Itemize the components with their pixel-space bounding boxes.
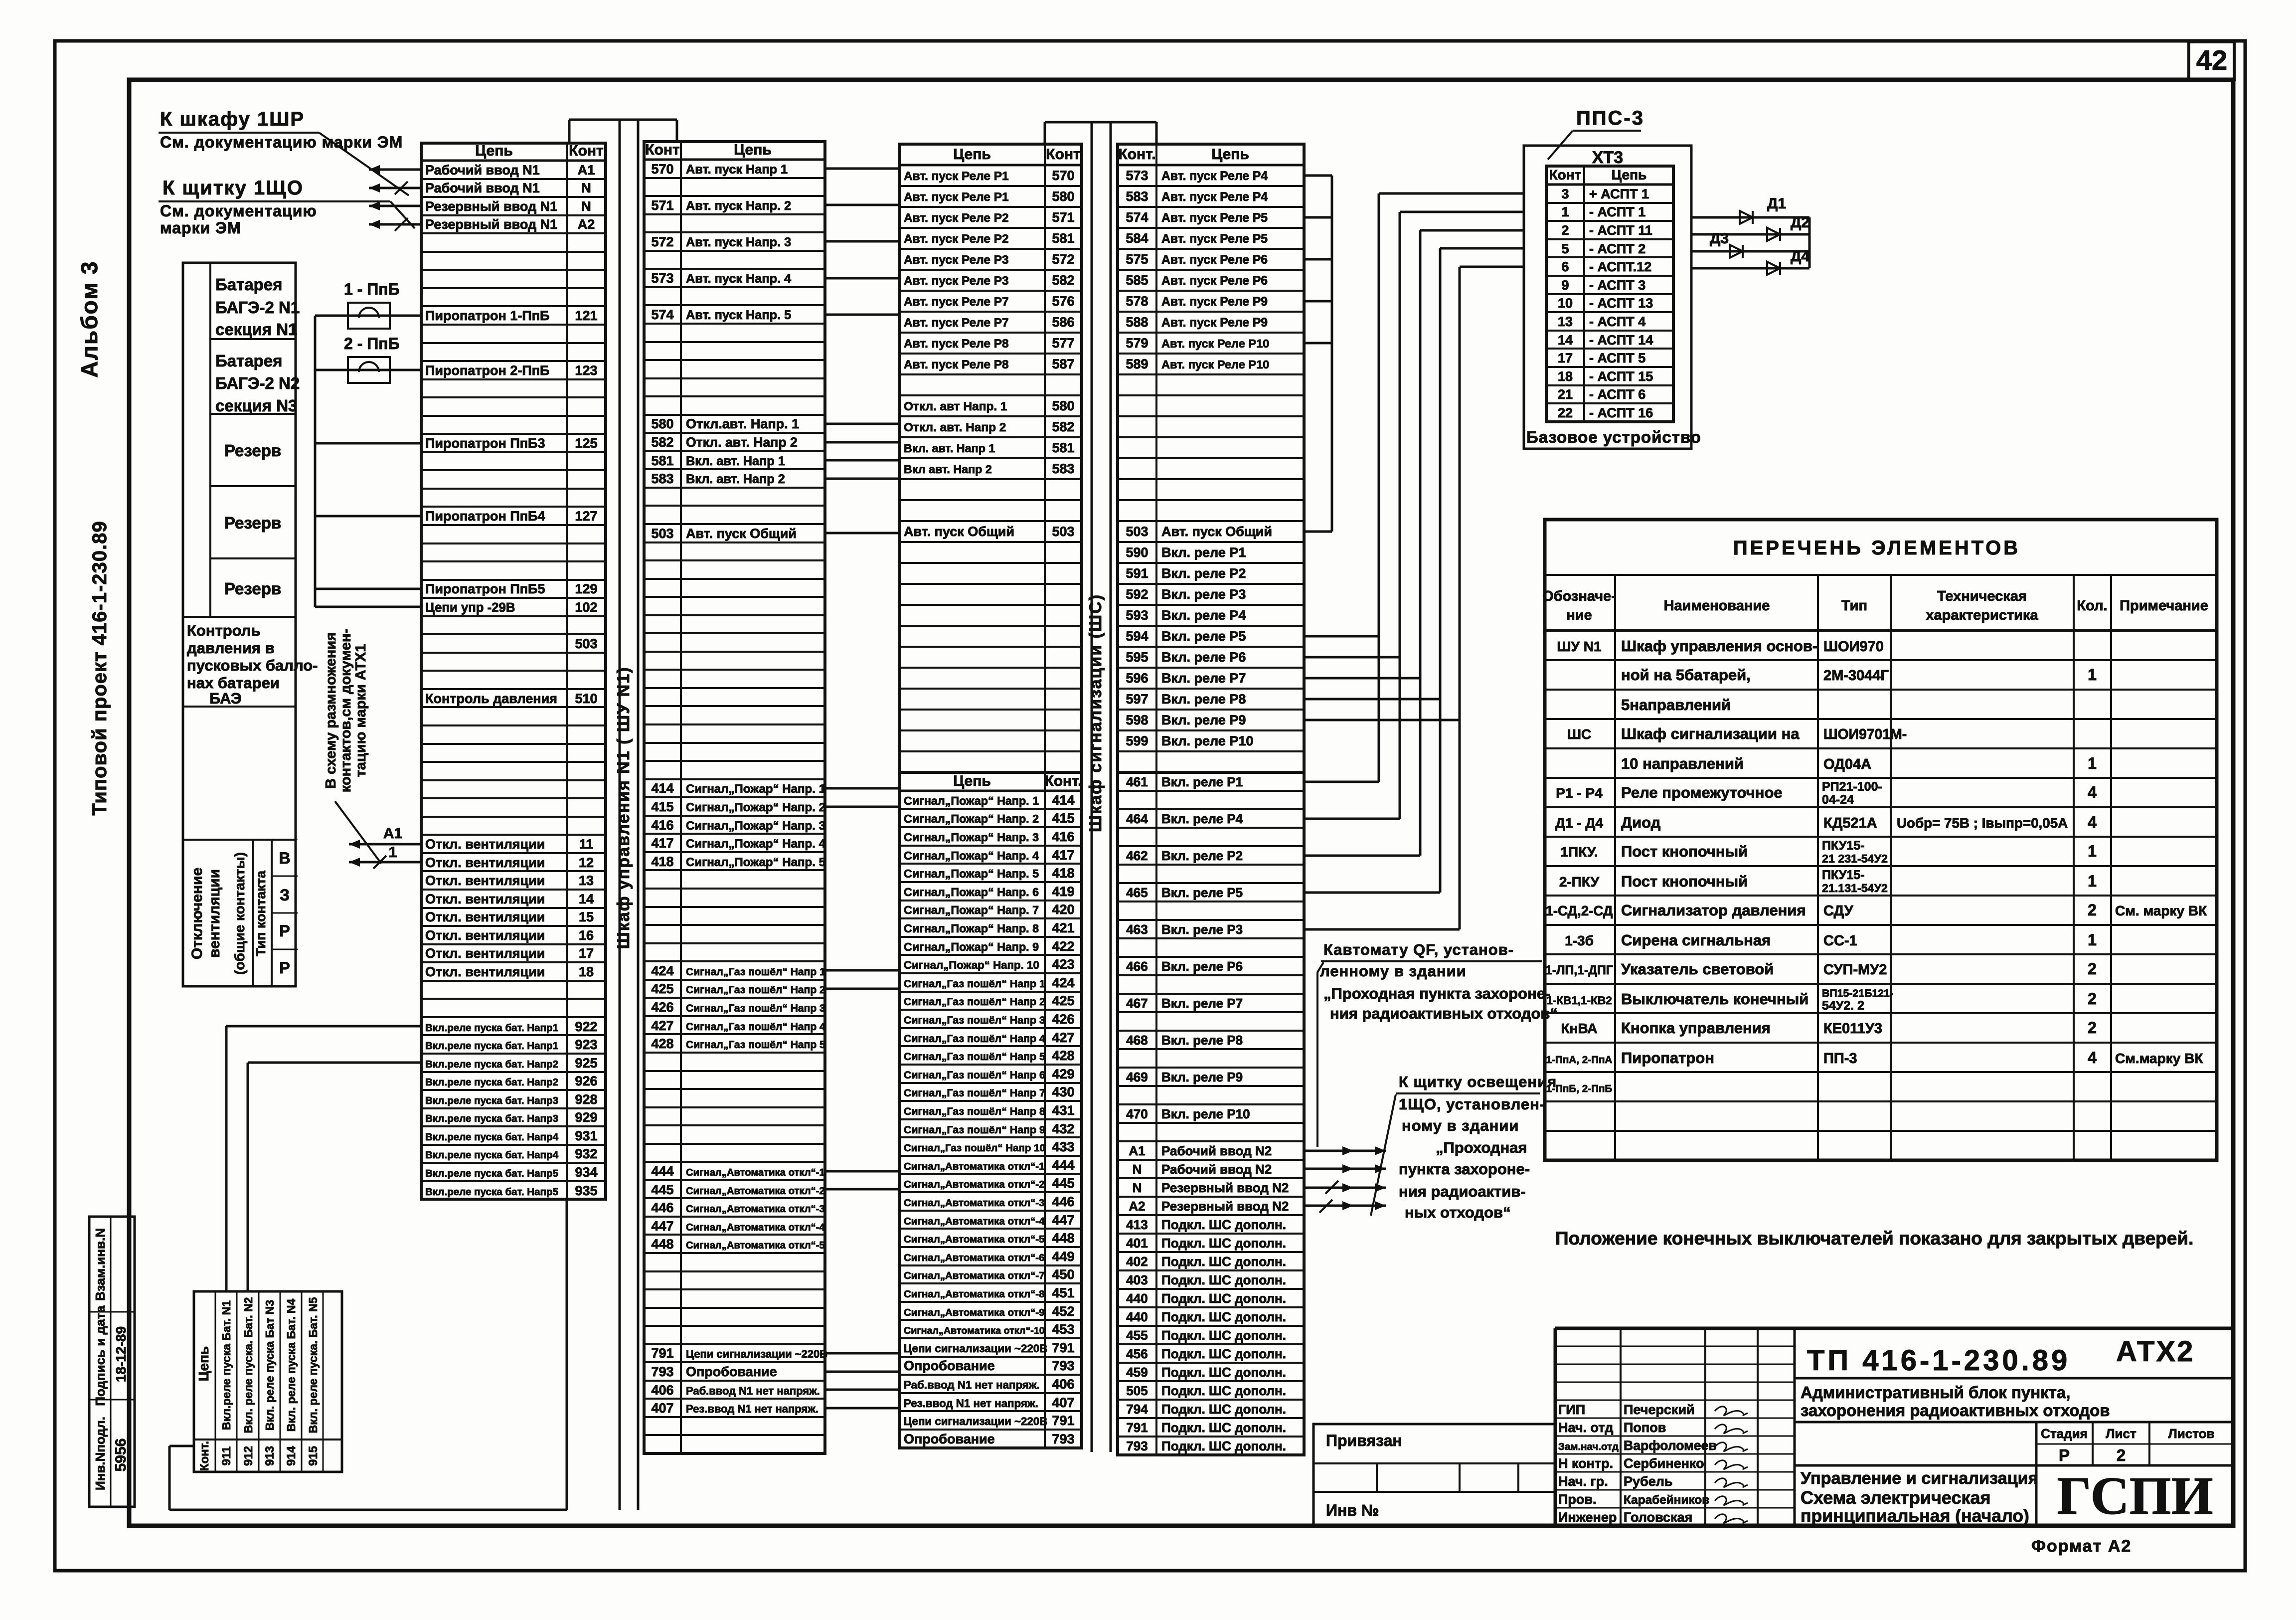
svg-text:576: 576 [1052, 294, 1074, 309]
svg-text:Авт. пуск Общий: Авт. пуск Общий [686, 526, 797, 541]
svg-text:578: 578 [1126, 294, 1148, 309]
svg-text:586: 586 [1052, 315, 1074, 330]
svg-text:589: 589 [1126, 357, 1148, 371]
svg-text:Авт. пуск Реле Р2: Авт. пуск Реле Р2 [904, 211, 1009, 225]
svg-text:КнВА: КнВА [1561, 1021, 1597, 1036]
svg-text:Нач. отд: Нач. отд [1558, 1420, 1613, 1435]
svg-text:2М-3044Г: 2М-3044Г [1823, 668, 1889, 684]
svg-text:Авт. пуск Реле Р2: Авт. пуск Реле Р2 [904, 232, 1009, 246]
svg-text:2 - ПпБ: 2 - ПпБ [344, 335, 400, 353]
svg-text:6: 6 [1561, 259, 1569, 274]
svg-text:Авт. пуск Реле Р6: Авт. пуск Реле Р6 [1161, 253, 1268, 267]
svg-text:Р1 - Р4: Р1 - Р4 [1556, 785, 1603, 801]
svg-text:21.131-54У2: 21.131-54У2 [1822, 882, 1888, 895]
svg-text:Сигнал„Автоматика откл“-10: Сигнал„Автоматика откл“-10 [904, 1325, 1045, 1336]
svg-text:А1: А1 [383, 825, 402, 842]
svg-text:Авт. пуск Напр. 4: Авт. пуск Напр. 4 [686, 272, 791, 286]
svg-text:К щитку освещения: К щитку освещения [1399, 1073, 1557, 1090]
svg-text:503: 503 [1052, 524, 1074, 539]
svg-text:463: 463 [1126, 922, 1148, 937]
svg-text:См.марку ВК: См.марку ВК [2115, 1051, 2203, 1066]
svg-text:Откл. вентиляции: Откл. вентиляции [425, 909, 545, 924]
svg-text:1: 1 [2088, 931, 2097, 949]
svg-text:ПЕРЕЧЕНЬ ЭЛЕМЕНТОВ: ПЕРЕЧЕНЬ ЭЛЕМЕНТОВ [1733, 537, 2020, 559]
svg-text:Откл. вентиляции: Откл. вентиляции [425, 855, 545, 870]
svg-text:465: 465 [1126, 885, 1148, 900]
svg-text:Вкл.реле пуска бат. Напр2: Вкл.реле пуска бат. Напр2 [425, 1059, 558, 1070]
svg-text:ПКУ15-: ПКУ15- [1822, 839, 1865, 853]
svg-text:Инв №: Инв № [1326, 1501, 1379, 1519]
svg-text:Вкл. реле пуска. Бат. N5: Вкл. реле пуска. Бат. N5 [307, 1297, 320, 1433]
svg-text:581: 581 [1052, 440, 1074, 455]
svg-text:Цепи сигнализации ~220В: Цепи сигнализации ~220В [904, 1415, 1047, 1428]
svg-text:Подкл. ШС дополн.: Подкл. ШС дополн. [1161, 1439, 1286, 1453]
svg-text:Uобр= 75В ; Iвыпр=0,05А: Uобр= 75В ; Iвыпр=0,05А [1897, 815, 2068, 831]
svg-text:пусковых балло-: пусковых балло- [187, 657, 318, 674]
svg-text:Сигнал„Автоматика откл“-2: Сигнал„Автоматика откл“-2 [904, 1179, 1045, 1190]
svg-text:ШОИ9701М-: ШОИ9701М- [1823, 726, 1907, 742]
svg-text:4: 4 [2088, 783, 2097, 801]
svg-text:505: 505 [1126, 1383, 1148, 1398]
svg-text:418: 418 [1052, 866, 1074, 881]
svg-text:Раб.ввод N1 нет напряж.: Раб.ввод N1 нет напряж. [904, 1379, 1040, 1391]
svg-text:923: 923 [575, 1037, 597, 1052]
svg-text:Авт. пуск Реле Р4: Авт. пуск Реле Р4 [1161, 190, 1268, 204]
svg-text:Типовой проект 416-1-230.89: Типовой проект 416-1-230.89 [89, 521, 111, 815]
svg-text:415: 415 [651, 799, 673, 814]
svg-text:N: N [1133, 1180, 1142, 1195]
svg-text:428: 428 [1052, 1048, 1074, 1063]
svg-text:54У2. 2: 54У2. 2 [1822, 999, 1864, 1013]
svg-text:446: 446 [651, 1200, 673, 1215]
svg-text:570: 570 [651, 162, 673, 177]
svg-text:125: 125 [575, 436, 597, 451]
svg-text:Схема электрическая: Схема электрическая [1801, 1487, 1991, 1508]
svg-text:416: 416 [1052, 829, 1074, 844]
svg-text:447: 447 [1052, 1213, 1074, 1228]
svg-text:462: 462 [1126, 848, 1148, 863]
svg-text:5направлений: 5направлений [1621, 696, 1731, 714]
svg-text:Рабочий ввод N1: Рабочий ввод N1 [425, 180, 540, 195]
svg-text:Цепь: Цепь [953, 146, 991, 163]
svg-text:407: 407 [1052, 1395, 1074, 1410]
svg-text:Конт: Конт [1046, 146, 1080, 163]
svg-text:1: 1 [2088, 754, 2097, 772]
svg-text:12: 12 [579, 855, 594, 870]
svg-text:Конт: Конт [645, 142, 679, 158]
svg-text:423: 423 [1052, 957, 1074, 972]
svg-text:581: 581 [651, 453, 673, 468]
svg-text:Вкл.реле пуска бат. Напр5: Вкл.реле пуска бат. Напр5 [425, 1168, 558, 1179]
svg-text:Сигнал„Автоматика откл“-3: Сигнал„Автоматика откл“-3 [686, 1204, 825, 1215]
svg-text:Рубель: Рубель [1624, 1474, 1672, 1489]
svg-text:Подкл. ШС дополн.: Подкл. ШС дополн. [1161, 1236, 1286, 1251]
svg-text:459: 459 [1126, 1365, 1148, 1380]
svg-text:1ПКУ.: 1ПКУ. [1560, 844, 1598, 860]
svg-text:Вкл. реле пуска. Бат. N2: Вкл. реле пуска. Бат. N2 [242, 1297, 255, 1434]
svg-text:N: N [1133, 1162, 1142, 1177]
svg-text:Базовое устройство: Базовое устройство [1526, 428, 1701, 446]
svg-text:Положение конечных выключате: Положение конечных выключателей показано… [1555, 1228, 2193, 1249]
svg-text:Инженер: Инженер [1558, 1510, 1617, 1525]
svg-text:420: 420 [1052, 902, 1074, 917]
svg-text:791: 791 [651, 1346, 673, 1361]
svg-text:445: 445 [1052, 1176, 1074, 1191]
svg-text:Подкл. ШС дополн.: Подкл. ШС дополн. [1161, 1420, 1286, 1435]
svg-text:А2: А2 [1129, 1199, 1145, 1214]
svg-text:Контроль давления: Контроль давления [425, 691, 557, 706]
svg-text:418: 418 [651, 854, 673, 869]
svg-text:Подкл. ШС дополн.: Подкл. ШС дополн. [1161, 1346, 1286, 1361]
svg-text:„Проходная пункта захороне-: „Проходная пункта захороне- [1323, 985, 1550, 1002]
svg-text:Раб.ввод N1 нет напряж.: Раб.ввод N1 нет напряж. [686, 1385, 820, 1397]
svg-text:ленному в здании: ленному в здании [1320, 962, 1467, 980]
svg-text:Резерв: Резерв [224, 441, 281, 460]
svg-text:3: 3 [1561, 186, 1569, 201]
svg-text:503: 503 [575, 636, 597, 651]
svg-text:431: 431 [1052, 1103, 1074, 1118]
svg-text:давления в: давления в [187, 639, 275, 657]
svg-text:БАГЭ-2 N1: БАГЭ-2 N1 [215, 298, 300, 317]
svg-text:Вкл. реле Р5: Вкл. реле Р5 [1161, 885, 1243, 900]
svg-text:Сигнал„Пожар“ Напр. 6: Сигнал„Пожар“ Напр. 6 [904, 886, 1039, 899]
svg-text:захоронения радиоактивных от: захоронения радиоактивных отходов [1801, 1401, 2110, 1420]
svg-text:579: 579 [1126, 336, 1148, 351]
svg-text:Сигнал„Пожар“ Напр. 5: Сигнал„Пожар“ Напр. 5 [904, 867, 1039, 880]
svg-text:Шкаф управления N1 ( ШУ N1): Шкаф управления N1 ( ШУ N1) [614, 667, 633, 949]
svg-text:10 направлений: 10 направлений [1621, 755, 1744, 772]
svg-text:Сигнал„Газ пошёл“ Напр 8: Сигнал„Газ пошёл“ Напр 8 [904, 1105, 1045, 1117]
svg-text:510: 510 [575, 691, 597, 706]
svg-text:419: 419 [1052, 884, 1074, 899]
svg-text:Авт. пуск Реле Р5: Авт. пуск Реле Р5 [1161, 211, 1268, 225]
svg-text:469: 469 [1126, 1070, 1148, 1084]
svg-text:444: 444 [651, 1164, 673, 1179]
svg-text:Авт. пуск Реле Р8: Авт. пуск Реле Р8 [904, 337, 1009, 351]
svg-text:Сигнал„Автоматика откл“-7: Сигнал„Автоматика откл“-7 [904, 1270, 1045, 1281]
svg-text:Сигнал„Газ пошёл“ Напр 3: Сигнал„Газ пошёл“ Напр 3 [904, 1014, 1045, 1026]
svg-text:Подкл. ШС дополн.: Подкл. ШС дополн. [1161, 1365, 1286, 1380]
svg-text:Сигнал„Пожар“ Напр. 3: Сигнал„Пожар“ Напр. 3 [904, 831, 1039, 844]
svg-text:ной на 5батарей,: ной на 5батарей, [1621, 666, 1751, 684]
svg-text:Авт. пуск Напр. 5: Авт. пуск Напр. 5 [686, 308, 791, 322]
svg-text:Вкл. реле Р2: Вкл. реле Р2 [1161, 566, 1246, 581]
svg-text:Пиропатрон: Пиропатрон [1621, 1049, 1714, 1067]
svg-text:Вкл.реле пуска бат. Напр4: Вкл.реле пуска бат. Напр4 [425, 1131, 559, 1143]
svg-text:13: 13 [579, 873, 594, 888]
svg-text:Опробование: Опробование [904, 1432, 995, 1446]
svg-text:Пиропатрон 2-ПпБ: Пиропатрон 2-ПпБ [425, 363, 549, 378]
svg-text:- АСПТ 15: - АСПТ 15 [1589, 369, 1653, 384]
svg-text:22: 22 [1558, 405, 1573, 420]
svg-text:N: N [581, 180, 591, 195]
svg-text:Попов: Попов [1624, 1420, 1666, 1435]
svg-text:Подкл. ШС дополн.: Подкл. ШС дополн. [1161, 1402, 1286, 1417]
svg-text:Цепь: Цепь [1612, 167, 1647, 182]
svg-text:Карабейников: Карабейников [1624, 1493, 1709, 1507]
svg-text:В: В [279, 849, 290, 867]
svg-text:Цепи сигнализации ~220В: Цепи сигнализации ~220В [904, 1342, 1047, 1355]
svg-text:Административный блок пункта: Административный блок пункта, [1801, 1383, 2070, 1402]
svg-text:марки ЭМ: марки ЭМ [160, 219, 241, 237]
svg-text:570: 570 [1052, 168, 1074, 183]
svg-text:Листов: Листов [2168, 1426, 2215, 1441]
svg-text:Конт.: Конт. [1044, 773, 1082, 789]
svg-text:Зам.нач.отд: Зам.нач.отд [1558, 1441, 1619, 1452]
svg-text:Сигнал„Автоматика откл“-4: Сигнал„Автоматика откл“-4 [904, 1216, 1045, 1227]
svg-text:450: 450 [1052, 1267, 1074, 1282]
svg-text:448: 448 [1052, 1231, 1074, 1246]
svg-text:Вкл. реле Р1: Вкл. реле Р1 [1161, 545, 1246, 560]
svg-text:ных отходов“: ных отходов“ [1405, 1204, 1511, 1221]
svg-text:403: 403 [1126, 1272, 1148, 1287]
svg-text:925: 925 [575, 1056, 597, 1071]
svg-text:Вкл. реле Р4: Вкл. реле Р4 [1161, 608, 1246, 623]
svg-text:КЕ011У3: КЕ011У3 [1823, 1021, 1882, 1037]
svg-text:573: 573 [1126, 168, 1148, 183]
svg-text:См. документацию: См. документацию [160, 202, 317, 220]
svg-text:ния радиоактив-: ния радиоактив- [1399, 1183, 1526, 1200]
svg-text:572: 572 [1052, 252, 1074, 267]
svg-text:Кавтомату QF, установ-: Кавтомату QF, установ- [1323, 941, 1514, 958]
svg-text:Вкл. реле Р7: Вкл. реле Р7 [1161, 671, 1246, 686]
svg-text:Вкл. реле Р9: Вкл. реле Р9 [1161, 1070, 1243, 1084]
svg-text:Сигнал„Автоматика откл“-1: Сигнал„Автоматика откл“-1 [686, 1167, 825, 1178]
svg-text:Сигнал„Газ пошёл“ Напр 5: Сигнал„Газ пошёл“ Напр 5 [904, 1051, 1045, 1063]
svg-text:912: 912 [242, 1446, 255, 1466]
svg-text:581: 581 [1052, 231, 1074, 246]
svg-text:В схему размножения: В схему размножения [323, 632, 339, 789]
svg-text:467: 467 [1126, 996, 1148, 1011]
svg-text:571: 571 [1052, 210, 1074, 225]
svg-text:1 - ПпБ: 1 - ПпБ [344, 280, 400, 298]
svg-text:406: 406 [651, 1383, 673, 1398]
svg-text:ния радиоактивных отходов“: ния радиоактивных отходов“ [1330, 1005, 1558, 1022]
svg-text:932: 932 [575, 1146, 597, 1161]
svg-text:421: 421 [1052, 920, 1074, 935]
svg-text:Сигнал„Автоматика откл“-8: Сигнал„Автоматика откл“-8 [904, 1288, 1045, 1300]
svg-text:594: 594 [1126, 629, 1148, 644]
svg-text:Цепь: Цепь [953, 773, 991, 789]
svg-text:915: 915 [307, 1446, 320, 1466]
svg-text:Вкл. реле Р1: Вкл. реле Р1 [1161, 774, 1243, 789]
svg-text:ППС-3: ППС-3 [1576, 107, 1644, 129]
svg-text:Альбом 3: Альбом 3 [76, 260, 102, 377]
svg-text:Авт. пуск Реле Р5: Авт. пуск Реле Р5 [1161, 232, 1268, 246]
svg-text:426: 426 [1052, 1012, 1074, 1027]
svg-text:17: 17 [579, 946, 594, 961]
svg-text:432: 432 [1052, 1121, 1074, 1136]
svg-text:Сигнал„Пожар“ Напр. 1: Сигнал„Пожар“ Напр. 1 [686, 782, 825, 796]
svg-text:ТП 416-1-230.89: ТП 416-1-230.89 [1807, 1344, 2070, 1377]
svg-text:- АСПТ 14: - АСПТ 14 [1589, 333, 1653, 348]
svg-text:592: 592 [1126, 587, 1148, 602]
svg-text:793: 793 [651, 1364, 673, 1379]
svg-text:ШС: ШС [1567, 726, 1591, 742]
svg-text:102: 102 [575, 600, 597, 615]
svg-text:9: 9 [1561, 278, 1569, 293]
svg-text:1: 1 [2088, 666, 2097, 684]
svg-text:Тип: Тип [1841, 598, 1867, 614]
svg-text:1: 1 [2088, 842, 2097, 860]
svg-text:Р: Р [2059, 1446, 2070, 1464]
svg-text:Авт. пуск Реле Р3: Авт. пуск Реле Р3 [904, 253, 1009, 267]
svg-text:Д3: Д3 [1710, 230, 1729, 247]
svg-text:характеристика: характеристика [1926, 607, 2038, 623]
svg-text:Авт. пуск Общий: Авт. пуск Общий [1161, 524, 1272, 539]
svg-text:413: 413 [1126, 1217, 1148, 1232]
svg-text:Авт. пуск Реле Р7: Авт. пуск Реле Р7 [904, 316, 1009, 330]
svg-text:448: 448 [651, 1237, 673, 1252]
svg-text:598: 598 [1126, 713, 1148, 727]
svg-text:1-ПпА, 2-ПпА: 1-ПпА, 2-ПпА [1546, 1054, 1613, 1066]
svg-text:Сигнал„Газ пошёл“ Напр 9: Сигнал„Газ пошёл“ Напр 9 [904, 1124, 1045, 1136]
svg-text:- АСПТ 2: - АСПТ 2 [1589, 241, 1645, 256]
svg-text:573: 573 [651, 271, 673, 286]
svg-text:15: 15 [579, 909, 594, 924]
svg-text:794: 794 [1126, 1402, 1148, 1417]
svg-text:секция N3: секция N3 [215, 396, 297, 415]
svg-text:Вкл. реле Р8: Вкл. реле Р8 [1161, 1033, 1243, 1048]
svg-text:425: 425 [1052, 993, 1074, 1008]
svg-text:922: 922 [575, 1019, 597, 1034]
svg-text:контактов,см докумен-: контактов,см докумен- [338, 629, 354, 792]
svg-text:577: 577 [1052, 336, 1074, 351]
svg-text:18: 18 [1558, 369, 1573, 384]
svg-text:Контроль: Контроль [187, 622, 261, 639]
svg-text:Сигнал„Газ пошёл“ Напр 2: Сигнал„Газ пошёл“ Напр 2 [686, 984, 825, 996]
svg-text:Вкл.реле пуска бат. Напр1: Вкл.реле пуска бат. Напр1 [425, 1022, 558, 1034]
svg-text:Подкл. ШС дополн.: Подкл. ШС дополн. [1161, 1328, 1286, 1343]
svg-text:Рез.ввод N1 нет напряж.: Рез.ввод N1 нет напряж. [904, 1397, 1038, 1410]
svg-text:Цепь: Цепь [1211, 146, 1249, 163]
svg-text:Сигнал„Газ пошёл“ Напр 10: Сигнал„Газ пошёл“ Напр 10 [904, 1142, 1045, 1154]
svg-text:129: 129 [575, 581, 597, 596]
svg-text:КД521А: КД521А [1823, 815, 1877, 831]
svg-text:407: 407 [651, 1401, 673, 1416]
svg-text:580: 580 [651, 416, 673, 431]
svg-text:1-ПпБ, 2-ПпБ: 1-ПпБ, 2-ПпБ [1546, 1083, 1613, 1094]
svg-text:5: 5 [1561, 241, 1569, 256]
svg-text:Отключение: Отключение [189, 868, 205, 959]
svg-text:470: 470 [1126, 1106, 1148, 1121]
svg-text:1: 1 [2088, 872, 2097, 890]
svg-text:1-СД,2-СД: 1-СД,2-СД [1545, 903, 1613, 918]
svg-text:Сигнал„Автоматика откл“-3: Сигнал„Автоматика откл“-3 [904, 1197, 1045, 1209]
svg-text:Откл. вентиляции: Откл. вентиляции [425, 892, 545, 906]
svg-text:Вкл.реле пуска бат. Напр3: Вкл.реле пуска бат. Напр3 [425, 1113, 558, 1124]
svg-text:Сигнал„Газ пошёл“ Напр 4: Сигнал„Газ пошёл“ Напр 4 [686, 1021, 825, 1033]
svg-text:Обозначе-: Обозначе- [1542, 588, 1616, 604]
svg-text:„Проходная: „Проходная [1436, 1139, 1527, 1156]
svg-text:13: 13 [1558, 314, 1573, 329]
svg-text:Указатель световой: Указатель световой [1621, 960, 1774, 978]
svg-text:Варфоломеев: Варфоломеев [1624, 1438, 1717, 1453]
svg-text:572: 572 [651, 234, 673, 249]
svg-text:Пост кнопочный: Пост кнопочный [1621, 873, 1748, 890]
svg-text:ОД04А: ОД04А [1823, 756, 1871, 772]
svg-text:793: 793 [1052, 1432, 1074, 1446]
svg-text:444: 444 [1052, 1158, 1074, 1173]
svg-text:583: 583 [651, 471, 673, 486]
svg-text:599: 599 [1126, 733, 1148, 748]
svg-text:Цепи сигнализации ~220В: Цепи сигнализации ~220В [686, 1348, 827, 1360]
svg-text:588: 588 [1126, 315, 1148, 330]
svg-text:427: 427 [651, 1018, 673, 1033]
svg-text:Наименование: Наименование [1664, 598, 1770, 614]
svg-text:422: 422 [1052, 939, 1074, 954]
svg-text:452: 452 [1052, 1304, 1074, 1319]
svg-text:ние: ние [1566, 607, 1592, 623]
svg-text:Рабочий ввод N1: Рабочий ввод N1 [425, 163, 540, 178]
svg-text:Примечание: Примечание [2120, 598, 2208, 614]
svg-text:См. марку ВК: См. марку ВК [2115, 903, 2207, 918]
svg-text:466: 466 [1126, 959, 1148, 974]
svg-text:Сигнал„Газ пошёл“ Напр 5: Сигнал„Газ пошёл“ Напр 5 [686, 1039, 825, 1051]
svg-text:Сигнал„Автоматика откл“-1: Сигнал„Автоматика откл“-1 [904, 1161, 1045, 1172]
svg-text:16: 16 [579, 928, 594, 943]
svg-text:См. документацию марки ЭМ: См. документацию марки ЭМ [160, 133, 403, 151]
svg-text:БАЭ: БАЭ [209, 690, 242, 707]
svg-text:583: 583 [1052, 461, 1074, 476]
svg-text:ному в здании: ному в здании [1402, 1117, 1519, 1134]
svg-text:414: 414 [1052, 793, 1074, 808]
svg-text:416: 416 [651, 818, 673, 833]
svg-text:456: 456 [1126, 1346, 1148, 1361]
svg-text:Откл. вентиляции: Откл. вентиляции [425, 964, 545, 979]
svg-text:580: 580 [1052, 398, 1074, 413]
svg-text:1ЩО, установлен-: 1ЩО, установлен- [1399, 1095, 1545, 1113]
svg-text:Вкл. реле Р6: Вкл. реле Р6 [1161, 650, 1246, 665]
svg-text:425: 425 [651, 981, 673, 996]
svg-text:2: 2 [2117, 1446, 2126, 1464]
svg-text:401: 401 [1126, 1236, 1148, 1251]
svg-text:Формат А2: Формат А2 [2031, 1537, 2132, 1556]
svg-text:934: 934 [575, 1165, 597, 1180]
svg-text:417: 417 [1052, 848, 1074, 863]
svg-text:+ АСПТ 1: + АСПТ 1 [1589, 186, 1649, 201]
svg-text:Рабочий ввод N2: Рабочий ввод N2 [1161, 1162, 1272, 1177]
svg-text:- АСПТ 3: - АСПТ 3 [1589, 278, 1645, 293]
svg-text:Сигнал„Автоматика откл“-4: Сигнал„Автоматика откл“-4 [686, 1222, 825, 1233]
svg-text:Опробование: Опробование [686, 1364, 777, 1379]
svg-text:Диод: Диод [1621, 814, 1661, 831]
svg-text:451: 451 [1052, 1285, 1074, 1300]
svg-text:Вкл. реле Р6: Вкл. реле Р6 [1161, 959, 1243, 974]
svg-text:18: 18 [579, 964, 594, 979]
svg-text:Цепи упр -29В: Цепи упр -29В [425, 601, 515, 615]
svg-text:402: 402 [1126, 1254, 1148, 1269]
svg-text:2: 2 [1561, 223, 1569, 238]
svg-text:2-ПКУ: 2-ПКУ [1559, 874, 1600, 890]
svg-text:- АСПТ 4: - АСПТ 4 [1589, 314, 1645, 329]
svg-text:Управление и сигнализация: Управление и сигнализация [1801, 1469, 2038, 1488]
svg-text:Д1: Д1 [1767, 195, 1786, 212]
svg-text:Авт. пуск Реле Р4: Авт. пуск Реле Р4 [1161, 170, 1268, 183]
svg-text:Сигнал„Пожар“ Напр. 2: Сигнал„Пожар“ Напр. 2 [904, 812, 1039, 825]
svg-text:Опробование: Опробование [904, 1358, 995, 1373]
svg-text:- АСПТ 5: - АСПТ 5 [1589, 351, 1645, 365]
svg-text:591: 591 [1126, 566, 1148, 581]
svg-text:582: 582 [651, 435, 673, 450]
svg-text:СС-1: СС-1 [1823, 933, 1857, 949]
svg-text:Вкл. реле Р3: Вкл. реле Р3 [1161, 587, 1246, 602]
svg-text:Сигнал„Пожар“ Напр. 5: Сигнал„Пожар“ Напр. 5 [686, 856, 825, 869]
svg-text:580: 580 [1052, 189, 1074, 204]
svg-text:пункта захороне-: пункта захороне- [1399, 1160, 1530, 1178]
svg-text:1: 1 [389, 844, 397, 861]
svg-text:Откл. авт. Напр 2: Откл. авт. Напр 2 [904, 421, 1006, 434]
